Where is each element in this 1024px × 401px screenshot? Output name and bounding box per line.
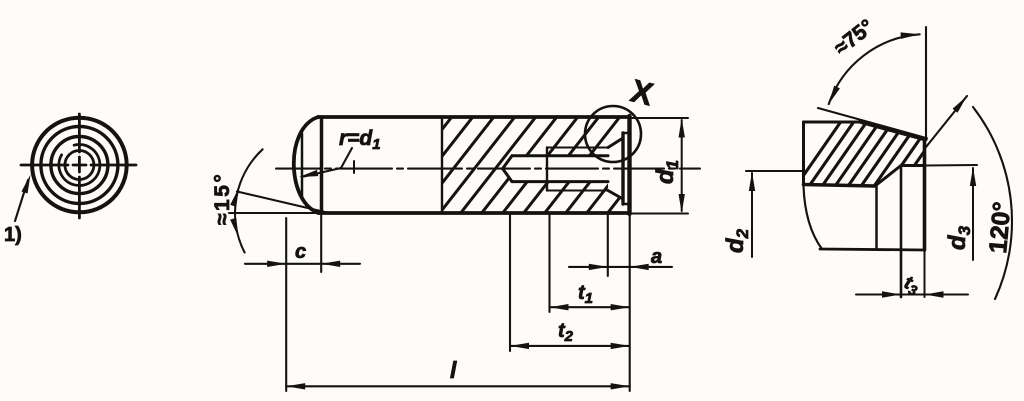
svg-text:≈75°: ≈75° [830, 15, 878, 60]
drill point [503, 156, 512, 182]
section boundary [441, 117, 443, 213]
end face ext down (t3 right) [924, 250, 926, 297]
counterbore wall [901, 164, 925, 167]
svg-text:d1: d1 [652, 160, 682, 184]
t3 dim line [856, 293, 968, 295]
75deg arrow right [901, 31, 920, 39]
countersink flare bottom [608, 191, 623, 200]
t1 dimension [548, 215, 550, 312]
dome (crowned end r=d1) [294, 117, 320, 213]
dome inner line [301, 134, 304, 200]
block top edge [804, 121, 862, 124]
15deg arc arrow up [230, 187, 242, 207]
15deg: tangent line [237, 192, 327, 213]
leader r=d1 [304, 148, 352, 177]
detail circle X [585, 106, 641, 162]
120deg leg arrow [953, 94, 970, 113]
75deg arc [829, 34, 920, 104]
radius center tick [353, 161, 355, 173]
d1 dimension [632, 117, 688, 119]
svg-text:l: l [450, 357, 457, 383]
counterbore floor [621, 133, 624, 204]
t3 arrow left [882, 291, 901, 297]
120deg arc [973, 107, 1012, 299]
bottom break edge [820, 249, 925, 250]
t3 arrow right [925, 291, 944, 297]
thread major bottom [547, 190, 608, 192]
svg-text:d3: d3 [944, 225, 974, 250]
thread start line [546, 148, 548, 191]
bore (thread minor) bottom [512, 180, 608, 183]
svg-text:d2: d2 [722, 228, 752, 253]
svg-text:120°: 120° [984, 201, 1016, 255]
centerline [276, 168, 700, 170]
note arrow 1) [15, 180, 28, 221]
svg-text:t1: t1 [578, 282, 593, 307]
thread major arc (3/4) [59, 145, 100, 186]
inner hole circle [65, 151, 94, 180]
hatch main view [372, 109, 710, 219]
d2 dim line [751, 173, 753, 257]
hatch detail [792, 120, 972, 192]
svg-text:X: X [627, 72, 657, 112]
cone runout slant [875, 166, 901, 187]
outer circle (pin OD) [32, 118, 127, 213]
svg-text:a: a [651, 246, 662, 268]
15deg: bottom edge extension [229, 212, 320, 214]
thread major top [547, 147, 608, 149]
crown tangent line [320, 117, 324, 213]
d3 dim line [972, 168, 974, 260]
svg-text:c: c [295, 241, 306, 263]
thread wall (block bottom) [804, 185, 876, 187]
120deg leg line [926, 96, 967, 147]
break curve left [804, 186, 823, 249]
end face ext up [925, 27, 927, 140]
end face [923, 139, 927, 250]
75deg arrow left [826, 86, 840, 106]
d3 arrow [970, 167, 976, 186]
15deg: arc [235, 149, 263, 252]
d3 ext line [925, 164, 978, 167]
bore (thread minor) top [512, 154, 608, 157]
15deg arc arrow down [230, 218, 241, 238]
c dimension [285, 218, 287, 391]
svg-text:r=d1: r=d1 [339, 127, 381, 153]
counterbore floor ext down (t3 left) [900, 166, 903, 298]
circle d2 countersink [41, 127, 118, 204]
l dimension [629, 215, 631, 391]
block left edge [802, 122, 805, 185]
svg-text:1): 1) [4, 224, 22, 246]
d2 arrow [749, 172, 755, 191]
centerline vertical [78, 114, 81, 218]
svg-text:t2: t2 [558, 320, 574, 345]
centerline horizontal [21, 164, 136, 167]
countersink cone face [861, 122, 926, 140]
vertical edge in bore [875, 186, 878, 249]
right end face [627, 116, 631, 214]
pin body outline [318, 117, 630, 213]
t2 dimension [509, 215, 511, 351]
d2 ext line [746, 170, 806, 172]
countersink flare top [608, 138, 623, 148]
svg-text:≈15°: ≈15° [211, 172, 234, 225]
counterbore top/bottom edges [623, 133, 630, 204]
cone tangent line [818, 108, 927, 138]
a dimension [607, 215, 609, 276]
circle d3 counterbore [51, 137, 108, 194]
